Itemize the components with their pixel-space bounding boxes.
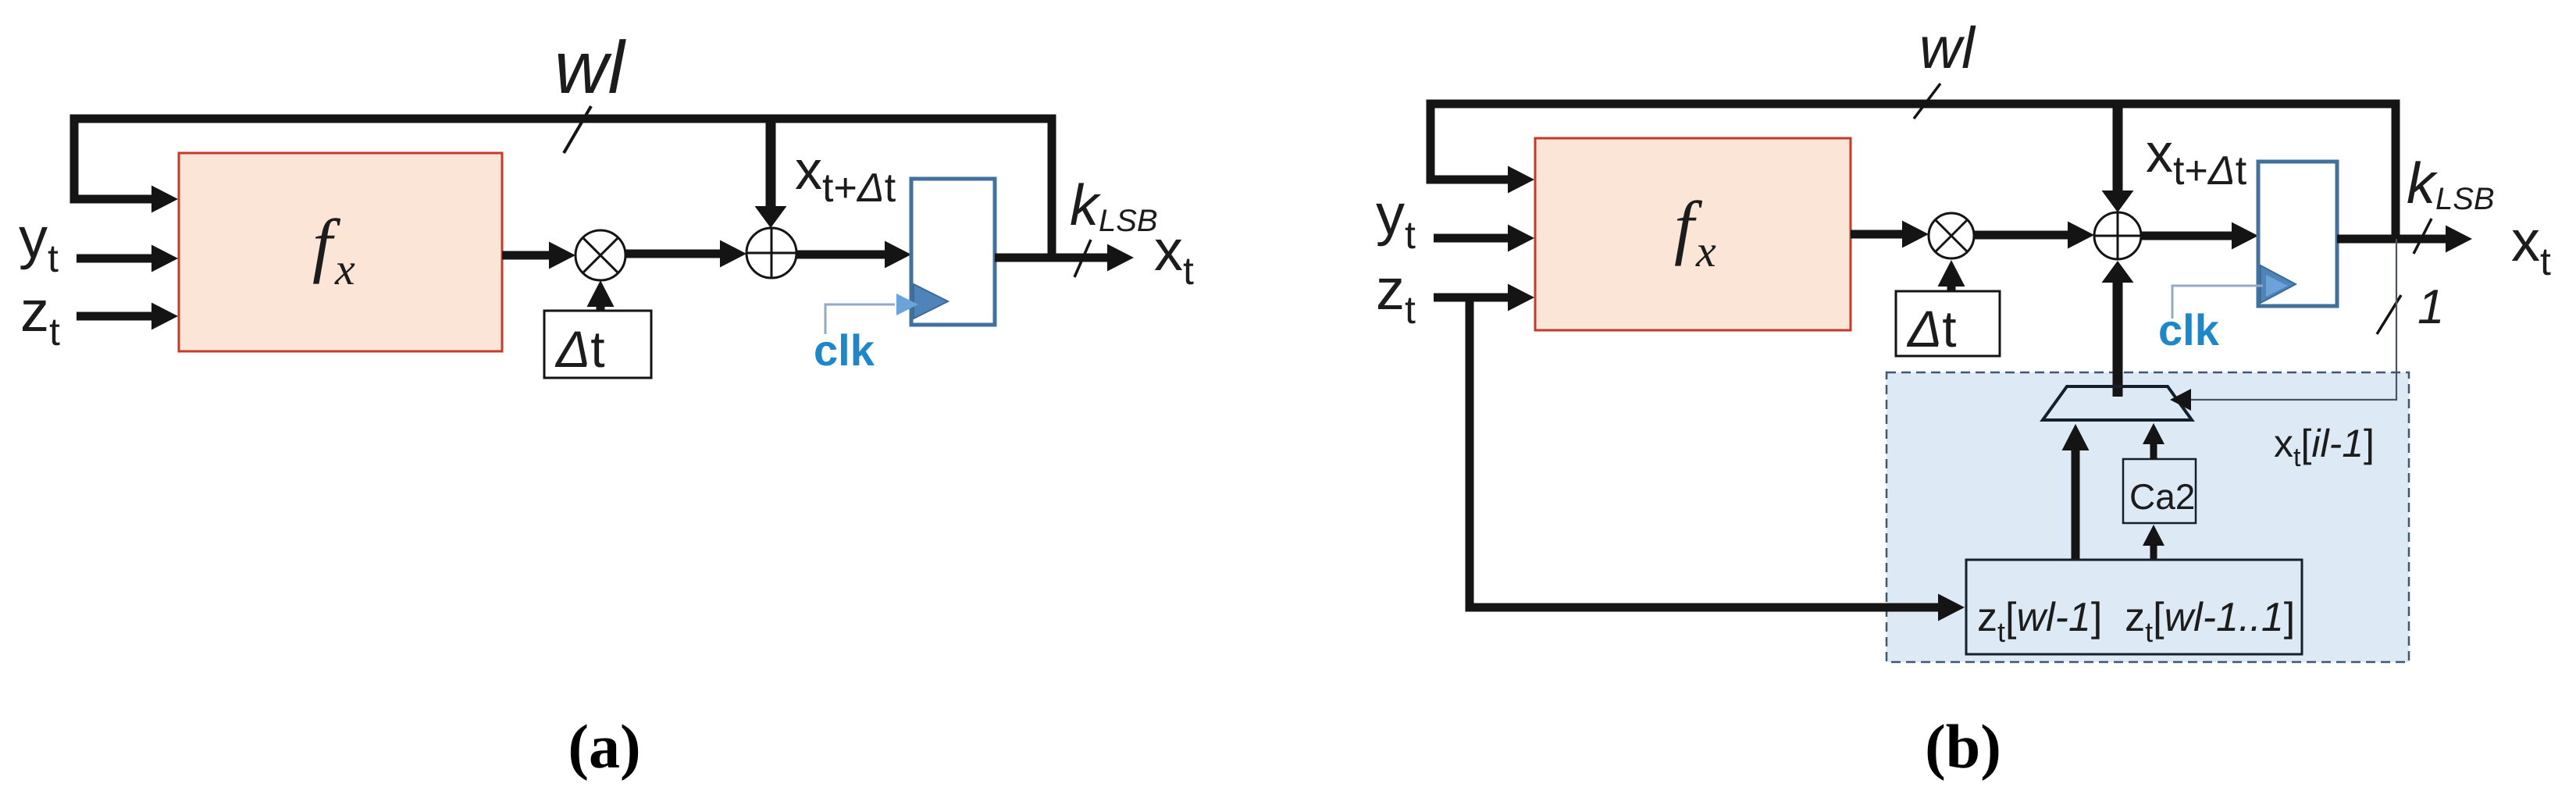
svg-text:Δt: Δt <box>554 320 605 378</box>
svg-text:yt: yt <box>1376 182 1416 257</box>
wire: vertical drop from top wire into adder (b) <box>2113 108 2123 190</box>
wire: thin feedback of LSB bit down into mux (b) <box>2191 239 2396 400</box>
svg-text:kLSB: kLSB <box>1070 173 1158 238</box>
wire: mux output up into adder (b) <box>2113 283 2123 397</box>
svg-text:kLSB: kLSB <box>2407 151 2495 216</box>
svg-text:xt[il-1]: xt[il-1] <box>2274 422 2375 472</box>
wire: z_t input arrow and branch down to shift box (b) <box>1434 294 1509 302</box>
register (b) <box>2258 162 2337 306</box>
wire: register output to x_t (b) <box>2337 235 2446 244</box>
svg-text:wl: wl <box>1919 15 1976 80</box>
svg-text:wl: wl <box>554 27 627 109</box>
multiplier (a) <box>575 230 625 280</box>
wire: feedback loop top (a): left vertical, top run, right vertical <box>74 119 1052 258</box>
svg-text:x: x <box>334 244 355 294</box>
node: output slash (b) <box>2414 219 2432 254</box>
wire: adder to register (b) <box>2141 232 2232 240</box>
mux trapezoid (b) <box>2043 386 2192 420</box>
block Δt (b) <box>1896 291 2000 356</box>
wire: register output to x_t (a) <box>995 254 1107 262</box>
wire: y_t input arrow (b) <box>1434 234 1509 243</box>
wire: clk arrowhead (b) <box>2266 275 2288 297</box>
wire: shift box to Ca2 arrow (b) <box>2150 540 2157 560</box>
dashed sign-extension box (b) <box>1887 372 2409 662</box>
svg-text:(b): (b) <box>1925 713 2001 781</box>
svg-text:xt+Δt: xt+Δt <box>795 140 896 211</box>
wire: clk arrowhead (a) <box>896 294 918 315</box>
register clock triangle (b) <box>2261 265 2296 303</box>
svg-text:1: 1 <box>2417 280 2444 334</box>
wire: multiplier to adder (b) <box>1974 231 2068 240</box>
svg-text:clk: clk <box>814 326 875 375</box>
svg-text:zt: zt <box>1376 257 1416 332</box>
wire: clk line (a) <box>825 304 895 334</box>
wire: multiplier to adder (a) <box>625 250 720 258</box>
node: wl slash on top wire (b) <box>1914 84 1940 119</box>
wire: Δt to multiplier arrow (b) <box>1947 283 1956 291</box>
svg-text:zt[wl-1] zt[wl-1..1]: zt[wl-1] zt[wl-1..1] <box>1977 595 2295 648</box>
wire: mux left input arrow from shift box (b) <box>2072 447 2080 560</box>
wire: feedback arrowhead into f_x (b) <box>1508 166 1534 194</box>
svg-text:xt: xt <box>1154 218 1194 293</box>
svg-text:zt: zt <box>20 279 60 354</box>
wire: feedback loop top (b) <box>1431 104 2396 239</box>
register clock triangle (a) <box>914 284 948 319</box>
wire: y_t input arrow (a) <box>77 255 153 263</box>
node: wl slash on top wire (a) <box>564 106 591 153</box>
block z_t slice box (b) <box>1966 560 2302 654</box>
block Δt (a) <box>544 311 651 378</box>
svg-text:xt+Δt: xt+Δt <box>2146 123 2247 194</box>
svg-text:(a): (a) <box>568 713 640 781</box>
wire: clk line (b) <box>2172 286 2263 319</box>
wire: vertical drop from top wire into adder (a) <box>766 123 776 206</box>
register (a) <box>911 179 995 325</box>
svg-text:Ca2: Ca2 <box>2129 476 2195 517</box>
node: output slash (a) <box>1074 240 1091 277</box>
svg-text:clk: clk <box>2158 305 2220 354</box>
node: 1-bit slash (b) <box>2377 295 2401 334</box>
svg-text:yt: yt <box>19 205 59 280</box>
wire: f_x output to multiplier (b) <box>1851 230 1904 239</box>
svg-text:Δt: Δt <box>1906 300 1957 358</box>
wire: Δt to multiplier arrow (a) <box>597 303 605 311</box>
block f_x (b) <box>1535 138 1851 330</box>
block f_x (a) <box>179 153 502 351</box>
wire: Ca2 to mux arrow (b) <box>2150 443 2157 459</box>
block Ca2 (b) <box>2123 459 2196 523</box>
multiplier (b) <box>1929 213 1974 258</box>
adder (a) <box>746 228 796 278</box>
svg-text:x: x <box>1695 226 1716 276</box>
wire: feedback arrowhead into f_x (a) <box>151 186 178 213</box>
adder (b) <box>2094 212 2141 259</box>
wire: z_t input arrow (a) <box>77 312 153 321</box>
svg-text:xt: xt <box>2511 208 2551 283</box>
wire: f_x output to multiplier (a) <box>502 251 550 260</box>
wire: adder to register (a) <box>796 251 885 259</box>
